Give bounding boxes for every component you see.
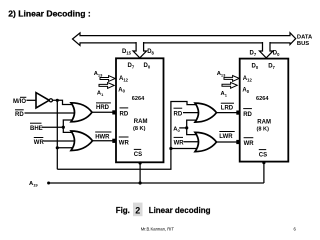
svg-text:RAM: RAM	[257, 119, 271, 125]
wire M/IO' tap to G4	[171, 148, 202, 150]
wire BHE branch to G1	[63, 120, 78, 127]
svg-text:6264: 6264	[132, 96, 145, 102]
node CS U1 pin	[139, 161, 142, 164]
wire M/IO' vertical	[56, 100, 58, 169]
or-gate G3 (LRD)	[195, 103, 217, 122]
pin square LWR at U2 WR	[236, 140, 240, 144]
svg-text:D7: D7	[250, 50, 257, 56]
svg-text:D7: D7	[128, 63, 135, 69]
svg-text:D0: D0	[144, 63, 151, 69]
wire G3 output LRD	[217, 112, 238, 114]
svg-text:CS: CS	[259, 152, 267, 158]
node CS U1 to A19	[139, 181, 142, 184]
wire G4 output LWR	[217, 141, 238, 143]
wire M/IO' bottom route	[57, 102, 202, 170]
svg-text:RAM: RAM	[134, 119, 148, 125]
node CS U2 pin	[262, 161, 265, 164]
svg-text:BUS: BUS	[297, 41, 309, 47]
node M/IO' tap G2	[56, 146, 59, 149]
svg-text:2: 2	[135, 205, 140, 215]
svg-text:D0: D0	[273, 50, 280, 56]
svg-text:RD: RD	[120, 111, 129, 117]
wire CS U1 drop	[139, 163, 141, 183]
svg-text:LWR: LWR	[219, 134, 233, 140]
or-gate G1 (HRD)	[71, 103, 92, 122]
chip U2 6264 (low bank)	[240, 59, 289, 162]
svg-text:A13: A13	[94, 71, 103, 77]
wire A0 branch to G4	[187, 128, 202, 135]
wire M/IO to inverter	[27, 99, 37, 101]
data bus	[73, 33, 296, 46]
svg-text:DATA: DATA	[297, 35, 313, 41]
svg-text:WR: WR	[119, 140, 130, 146]
wire A0 stub	[179, 127, 187, 129]
wire G2 output HWR	[93, 140, 113, 142]
wire M/IO' tap to G2	[57, 147, 78, 149]
node A0 junction	[185, 126, 188, 129]
node BHE junction	[62, 126, 65, 129]
node M/IO' at inverter output	[56, 99, 59, 102]
svg-text:M/IO: M/IO	[13, 99, 26, 105]
address arrow A13 to U2	[224, 76, 239, 82]
address arrow A13 to U1	[100, 76, 115, 82]
svg-text:A12: A12	[243, 76, 253, 82]
svg-text:A19: A19	[29, 181, 38, 187]
svg-text:WR: WR	[244, 141, 255, 147]
node A19 terminal	[47, 182, 50, 185]
svg-text:CS: CS	[134, 152, 142, 158]
svg-text:WR: WR	[34, 140, 45, 146]
svg-text:A1: A1	[221, 91, 228, 97]
svg-text:A1: A1	[97, 91, 104, 97]
svg-text:A0: A0	[242, 88, 249, 94]
svg-text:Fig.: Fig.	[116, 206, 130, 215]
node M/IO' tap G4	[169, 147, 172, 150]
address arrow A1 to U2	[222, 82, 237, 88]
svg-text:Mr.B.Kannan, RIT: Mr.B.Kannan, RIT	[141, 226, 175, 231]
svg-text:D8: D8	[147, 49, 154, 55]
wire RD to gate G1	[25, 112, 79, 114]
svg-text:D7: D7	[268, 63, 275, 69]
wire CS U2 drop	[263, 162, 265, 183]
wire A19	[49, 182, 264, 184]
pin square LRD at U2 RD	[236, 111, 240, 115]
svg-text:WR: WR	[174, 141, 185, 147]
wire WR to gate G2	[44, 140, 79, 142]
wire WR stub to G4	[184, 141, 203, 143]
svg-text:BHE: BHE	[30, 126, 43, 132]
svg-text:Linear decoding: Linear decoding	[149, 206, 211, 215]
svg-text:D0: D0	[252, 63, 259, 69]
wire BHE	[42, 126, 63, 128]
svg-text:HRD: HRD	[96, 105, 110, 111]
or-gate G4 (LWR)	[195, 132, 217, 151]
wire RD stub to G3	[183, 112, 202, 114]
svg-text:D15: D15	[122, 49, 132, 55]
svg-text:A13: A13	[217, 71, 226, 77]
svg-text:(8 K): (8 K)	[133, 126, 146, 132]
wire A0 branch to G3	[187, 120, 202, 128]
svg-text:(8 K): (8 K)	[257, 126, 270, 132]
svg-text:RD: RD	[174, 111, 183, 117]
svg-text:RD: RD	[243, 112, 252, 118]
bus tap to U1	[133, 42, 146, 58]
chip U1 6264 (high bank)	[116, 58, 164, 162]
svg-text:A0: A0	[118, 87, 125, 93]
wire BHE branch to G2	[63, 127, 78, 132]
svg-text:RD: RD	[15, 112, 24, 118]
svg-text:HWR: HWR	[95, 135, 110, 141]
wire inverter output	[53, 100, 79, 104]
svg-text:6264: 6264	[256, 96, 269, 102]
pin square HRD at U1 RD	[112, 110, 116, 114]
bus tap to U2	[260, 42, 274, 58]
inverter	[36, 93, 49, 108]
pin square HWR at U1 WR	[112, 139, 116, 143]
svg-text:A12: A12	[119, 76, 129, 82]
svg-text:2) Linear Decoding :: 2) Linear Decoding :	[8, 8, 91, 18]
svg-text:LRD: LRD	[221, 106, 234, 112]
address arrow A1 to U1	[99, 83, 114, 89]
wire G1 output HRD	[92, 111, 113, 113]
or-gate G2 (HWR)	[71, 131, 93, 151]
